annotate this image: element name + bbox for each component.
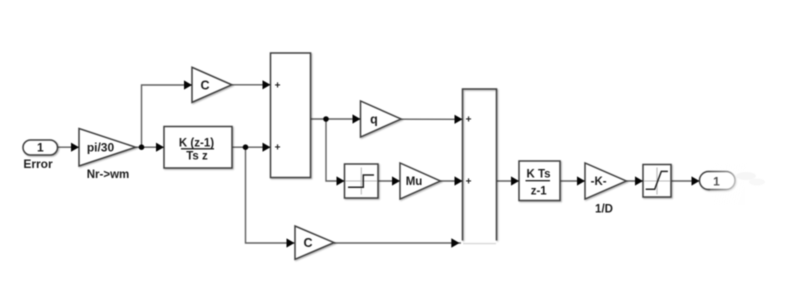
svg-text:1/D: 1/D [595, 204, 613, 216]
svg-text:K Ts: K Ts [526, 169, 550, 181]
svg-text:q: q [370, 113, 378, 127]
svg-text:Error: Error [23, 157, 53, 171]
svg-text:+: + [275, 80, 281, 91]
svg-text:pi/30: pi/30 [87, 140, 115, 154]
svg-text:+: + [275, 143, 281, 154]
svg-text:C: C [200, 78, 209, 92]
svg-text:+: + [466, 115, 472, 126]
svg-text:Ts z: Ts z [186, 150, 208, 162]
svg-text:+: + [466, 176, 472, 187]
svg-text:-K-: -K- [591, 176, 607, 188]
svg-text:z-1: z-1 [531, 186, 548, 198]
svg-text:C: C [303, 236, 312, 250]
svg-text:Mu: Mu [406, 176, 423, 188]
svg-text:K (z-1): K (z-1) [179, 138, 214, 150]
svg-text:Nr->wm: Nr->wm [87, 169, 130, 181]
svg-text:1: 1 [37, 141, 44, 155]
